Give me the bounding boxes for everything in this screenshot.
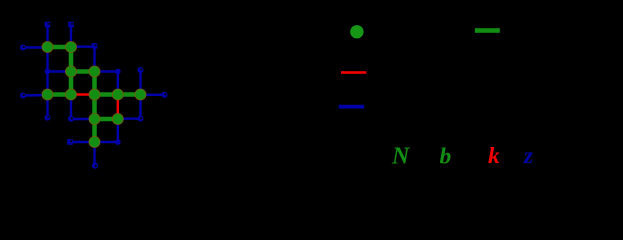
- wire terminal T9 to node G12: [70, 141, 95, 143]
- wire green link G8-G9: [118, 92, 141, 97]
- blue junction dots: [45, 69, 121, 145]
- ring bend R2: [138, 116, 144, 122]
- wire node G1 to node G5 through junction J1: [46, 47, 48, 95]
- wire terminal T1 to node G1: [46, 25, 48, 48]
- node G1: [42, 42, 53, 53]
- wire green link G10-G11: [95, 117, 118, 122]
- node G7: [89, 89, 100, 100]
- terminal T8: [45, 115, 51, 121]
- terminal T10: [92, 163, 98, 169]
- red links: [71, 95, 118, 120]
- wire node G4 to node G8 via junction J2: [95, 72, 118, 95]
- node G12: [89, 137, 100, 148]
- wire green link G1-G2: [48, 45, 72, 50]
- terminal T9: [67, 139, 73, 145]
- svg-text:z: z: [523, 143, 533, 168]
- wire node G9 to node G11 via ring bend R2: [118, 95, 141, 119]
- node G6: [66, 89, 77, 100]
- wire terminal T4 to node G4: [93, 46, 95, 72]
- terminal T5: [20, 93, 26, 99]
- wire green link G7-G10: [92, 95, 97, 120]
- junction J2: [115, 69, 121, 75]
- node G2: [66, 42, 77, 53]
- node G8: [112, 89, 123, 100]
- wire junction J1 to node G3: [48, 70, 72, 72]
- node G9: [135, 89, 146, 100]
- wire green link G4-G7: [92, 72, 97, 95]
- terminal T6: [138, 67, 144, 73]
- node G5: [42, 89, 53, 100]
- green router nodes: [42, 42, 146, 148]
- wire red link G8-G11: [117, 95, 119, 120]
- svg-text:k: k: [488, 143, 500, 169]
- node G10: [89, 114, 100, 125]
- wire node G5 to terminal T8: [46, 95, 48, 118]
- terminal T4: [92, 43, 98, 49]
- wire terminal T6 to node G9: [139, 70, 141, 95]
- svg-text:b: b: [440, 143, 452, 169]
- node G4: [89, 66, 100, 77]
- node G3: [66, 66, 77, 77]
- legend marker: green router dot: [350, 25, 363, 38]
- wire node G9 to terminal T7: [141, 94, 165, 96]
- wire green link G10-G12: [92, 119, 97, 142]
- terminal T2: [68, 22, 74, 28]
- node G11: [112, 114, 123, 125]
- wire terminal T3 to node G1: [23, 46, 48, 48]
- wire green link G2-G3: [69, 47, 74, 72]
- terminal T7: [162, 92, 168, 98]
- terminal T1: [45, 22, 51, 28]
- wire node G11 to node G12 via junction J3: [95, 119, 118, 142]
- legend marker: green line (column 2): [475, 28, 500, 33]
- junction J3: [115, 139, 121, 145]
- wire green link G5-G6: [48, 92, 72, 97]
- wire green link G3-G4: [71, 69, 95, 74]
- wire terminal T5 to node G5: [23, 94, 48, 97]
- blue terminal links: [23, 25, 165, 166]
- terminal T3: [20, 45, 26, 51]
- wire node G12 to terminal T10: [93, 142, 95, 166]
- legend marker: red line: [341, 71, 366, 74]
- legend marker: blue line: [339, 105, 364, 109]
- wire green link G3-G6: [69, 72, 74, 95]
- wire node G6 to node G10 via ring bend R1: [71, 95, 95, 120]
- wire green link G7-G8: [95, 92, 118, 97]
- blue terminals (small markers with dark pinhole): [20, 22, 168, 169]
- wire terminal T2 to node G2: [70, 25, 72, 48]
- ring bend R1: [68, 116, 74, 122]
- green local links: [48, 47, 141, 142]
- svg-text:N: N: [391, 144, 411, 170]
- wire node G2 to terminal T4: [71, 46, 95, 48]
- wire red link G6-G7: [71, 93, 95, 95]
- junction J1: [45, 69, 51, 75]
